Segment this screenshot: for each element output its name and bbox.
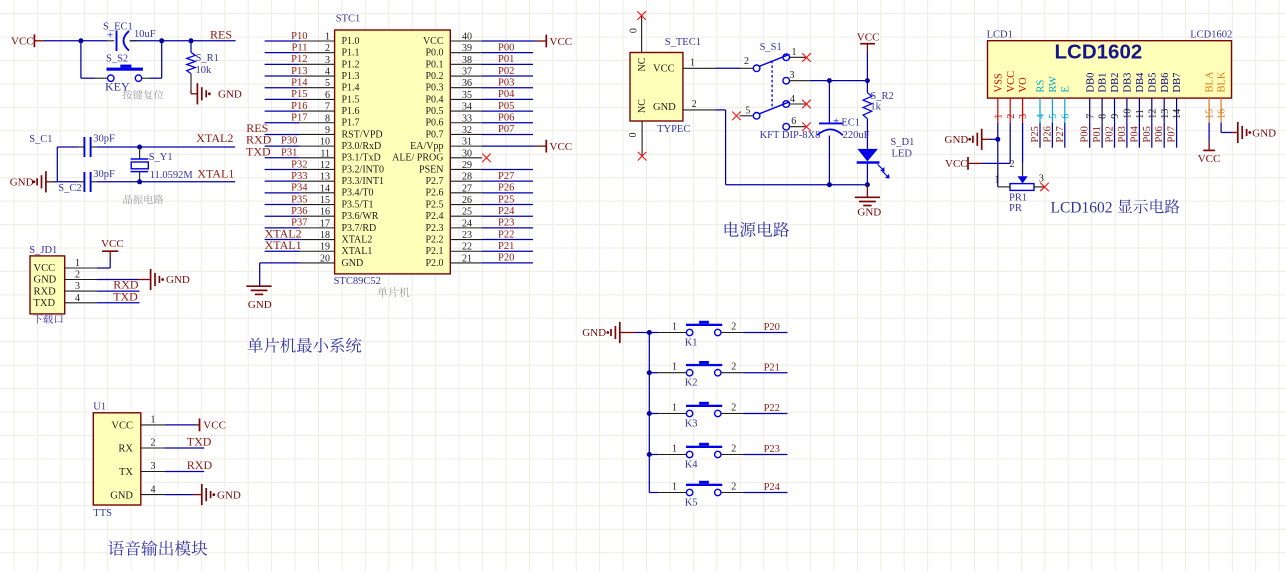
ground GND (crystal) <box>10 171 58 192</box>
svg-text:S_C1: S_C1 <box>29 134 52 145</box>
svg-text:1: 1 <box>993 114 1004 119</box>
svg-text:3: 3 <box>790 70 795 81</box>
svg-text:S_D1: S_D1 <box>890 137 914 148</box>
svg-text:P00: P00 <box>498 42 514 53</box>
svg-text:5: 5 <box>1048 114 1059 119</box>
svg-text:VCC: VCC <box>34 263 56 274</box>
svg-text:TXD: TXD <box>187 435 212 449</box>
pin 37 STC1 right <box>425 66 533 82</box>
svg-text:10: 10 <box>320 137 330 148</box>
svg-text:10: 10 <box>1123 109 1134 119</box>
svg-text:14: 14 <box>320 183 330 194</box>
svg-text:16: 16 <box>320 207 330 218</box>
svg-text:P3.3/INT1: P3.3/INT1 <box>342 176 385 187</box>
svg-text:P0.0: P0.0 <box>425 48 443 59</box>
switch S_S1 <box>744 42 797 130</box>
net label P37 <box>291 218 307 229</box>
pin 22 STC1 right <box>425 241 533 257</box>
pin 10 STC1 left <box>265 137 382 152</box>
svg-text:31: 31 <box>462 137 472 148</box>
svg-text:24: 24 <box>462 218 472 229</box>
svg-text:P23: P23 <box>498 218 514 229</box>
pin 12 STC1 left <box>265 160 384 175</box>
svg-text:9: 9 <box>1110 114 1121 119</box>
svg-text:1: 1 <box>672 444 677 455</box>
svg-text:14: 14 <box>1172 109 1183 119</box>
svg-text:10k: 10k <box>196 65 213 76</box>
pin 31 STC1 right <box>410 137 572 153</box>
svg-text:VCC: VCC <box>11 35 34 47</box>
text download caption <box>33 314 63 324</box>
svg-text:+: + <box>833 116 839 128</box>
svg-text:P26: P26 <box>1042 126 1053 142</box>
net labels RXD P30 (pin10) <box>246 133 297 147</box>
svg-text:20: 20 <box>320 253 330 264</box>
svg-text:P2.2: P2.2 <box>425 234 443 245</box>
pin 25 STC1 right <box>425 206 533 222</box>
svg-text:GND: GND <box>582 327 606 339</box>
svg-text:RW: RW <box>1048 76 1059 92</box>
pin 7 LCD1 (DB0) <box>1085 73 1096 123</box>
svg-text:P26: P26 <box>498 183 514 194</box>
text TTS section title <box>108 540 207 556</box>
svg-text:DB0: DB0 <box>1085 73 1096 93</box>
svg-text:PR1: PR1 <box>1009 192 1027 203</box>
svg-text:36: 36 <box>462 78 472 89</box>
power port VCC (power circuit) <box>857 31 880 80</box>
svg-text:0: 0 <box>629 28 640 33</box>
svg-text:19: 19 <box>320 242 330 253</box>
svg-text:LCD1: LCD1 <box>987 30 1013 41</box>
text reset caption <box>122 90 163 100</box>
pin 14 LCD1 (DB7) <box>1172 73 1183 123</box>
svg-text:GND: GND <box>166 274 190 286</box>
svg-text:VCC: VCC <box>550 141 573 153</box>
pin 4 STC1 left <box>265 66 360 82</box>
svg-text:GND: GND <box>218 88 242 100</box>
pin 7 STC1 left <box>265 101 360 117</box>
svg-text:1: 1 <box>690 57 695 68</box>
svg-text:33: 33 <box>462 113 472 124</box>
svg-text:DB4: DB4 <box>1135 72 1146 93</box>
pin 32 STC1 right <box>425 124 533 140</box>
svg-text:K5: K5 <box>685 497 698 508</box>
svg-text:8: 8 <box>325 113 330 124</box>
svg-text:LCD1602: LCD1602 <box>1055 41 1143 64</box>
svg-text:S_C2: S_C2 <box>58 183 81 194</box>
svg-text:LCD1602: LCD1602 <box>1051 199 1113 216</box>
svg-text:P31: P31 <box>281 147 297 158</box>
capacitor S_EC1 <box>103 22 156 52</box>
pin 16 STC1 left <box>265 207 379 222</box>
svg-text:1: 1 <box>672 403 677 414</box>
svg-text:1: 1 <box>672 482 677 493</box>
pin 29 STC1 right <box>419 160 533 175</box>
svg-text:STC1: STC1 <box>336 14 361 25</box>
svg-text:DB1: DB1 <box>1098 73 1109 93</box>
pin 21 STC1 right <box>425 253 533 269</box>
svg-text:P04: P04 <box>1129 125 1140 142</box>
svg-text:RXD: RXD <box>34 286 57 297</box>
pin 4 S_S1 nc <box>790 100 811 109</box>
svg-text:2: 2 <box>731 444 736 455</box>
svg-text:P20: P20 <box>764 322 780 333</box>
wire VCC to RES <box>44 40 236 42</box>
pin 0 bottom S_TEC1 <box>628 121 647 161</box>
net label XTAL1 (pin19) <box>265 238 302 252</box>
svg-text:LED: LED <box>892 149 913 160</box>
svg-text:1: 1 <box>792 47 797 58</box>
net label RES <box>210 27 232 41</box>
ground GND (LCD left) <box>945 129 998 150</box>
wire LCD pin 5 net P26 <box>1042 123 1053 148</box>
svg-text:XTAL1: XTAL1 <box>265 238 302 252</box>
svg-text:GND: GND <box>653 102 676 113</box>
pin 6 LCD1 (E) <box>1060 86 1071 123</box>
svg-text:P35: P35 <box>291 194 307 205</box>
connector S_JD1 <box>29 245 64 314</box>
svg-text:STC89C52: STC89C52 <box>334 276 381 287</box>
svg-text:KEY: KEY <box>105 80 130 94</box>
pin 4 S_JD1 net TXD <box>65 289 140 303</box>
svg-text:2: 2 <box>1010 159 1015 170</box>
svg-text:4: 4 <box>790 94 795 105</box>
svg-text:22: 22 <box>462 242 472 253</box>
svg-text:P2.6: P2.6 <box>425 188 443 199</box>
svg-text:VCC: VCC <box>945 158 968 170</box>
svg-text:34: 34 <box>462 102 472 113</box>
pin 39 STC1 right <box>425 42 533 58</box>
svg-text:RX: RX <box>118 444 133 455</box>
pin 9 LCD1 (DB2) <box>1110 73 1121 123</box>
crystal S_Y1 <box>131 147 194 182</box>
svg-text:P03: P03 <box>498 78 514 89</box>
svg-text:11: 11 <box>1135 109 1146 119</box>
svg-text:XTAL2: XTAL2 <box>196 131 233 145</box>
pin 15 LCD1 (BLA) <box>1205 71 1216 123</box>
svg-text:P24: P24 <box>498 206 515 217</box>
svg-text:VCC: VCC <box>423 36 444 47</box>
wire LCD pin 6 net P27 <box>1055 123 1066 148</box>
svg-text:26: 26 <box>462 195 472 206</box>
ground GND (S_R1) <box>191 83 242 104</box>
svg-text:11: 11 <box>320 148 330 159</box>
svg-text:P1.2: P1.2 <box>342 59 360 70</box>
pin 38 STC1 right <box>425 54 533 70</box>
svg-text:E: E <box>1060 86 1071 92</box>
svg-text:P14: P14 <box>291 78 308 89</box>
key K3 <box>649 402 787 430</box>
pin 30 STC1 right <box>392 148 491 163</box>
svg-text:30: 30 <box>462 148 472 159</box>
svg-text:P2.0: P2.0 <box>425 258 443 269</box>
svg-text:2: 2 <box>731 322 736 333</box>
svg-text:29: 29 <box>462 160 472 171</box>
svg-text:2: 2 <box>151 438 156 449</box>
svg-text:ALE/ PROG: ALE/ PROG <box>392 153 443 164</box>
svg-text:27: 27 <box>462 183 472 194</box>
svg-text:U1: U1 <box>93 401 106 412</box>
capacitor S_C2 <box>58 169 115 194</box>
svg-text:TYPEC: TYPEC <box>657 124 690 135</box>
connector S_TEC1 body <box>630 37 701 135</box>
ground GND (power circuit) <box>855 185 881 219</box>
svg-text:P07: P07 <box>498 124 514 135</box>
svg-text:P27: P27 <box>1055 126 1066 142</box>
svg-text:P3.2/INT0: P3.2/INT0 <box>342 164 385 175</box>
svg-text:P1.6: P1.6 <box>342 106 360 117</box>
pin 9 STC1 left <box>265 125 383 140</box>
svg-text:17: 17 <box>320 218 330 229</box>
svg-text:GND: GND <box>110 490 133 501</box>
svg-text:DB6: DB6 <box>1160 73 1171 93</box>
svg-text:VCC: VCC <box>653 64 675 75</box>
svg-text:21: 21 <box>462 253 472 264</box>
pin 28 STC1 right <box>425 171 533 187</box>
power port VCC (S_JD1) <box>101 238 124 268</box>
svg-text:3: 3 <box>1018 114 1029 119</box>
svg-text:0: 0 <box>628 133 639 138</box>
pin 14 STC1 left <box>265 183 374 198</box>
pin 17 STC1 left <box>265 218 377 233</box>
svg-text:GND: GND <box>1252 128 1276 140</box>
svg-text:P15: P15 <box>291 89 307 100</box>
pin 13 STC1 left <box>265 172 384 187</box>
svg-text:S_JD1: S_JD1 <box>29 245 57 256</box>
pin 35 STC1 right <box>425 89 533 105</box>
pin 0 top S_TEC1 <box>629 11 646 52</box>
wire LCD pin1 to pot <box>995 123 1000 187</box>
wire LCD pin3 to wiper <box>1022 123 1024 164</box>
ground GND (S_JD1) <box>138 269 190 290</box>
potentiometer PR1 <box>995 159 1049 214</box>
svg-text:GND: GND <box>857 206 881 218</box>
svg-text:2: 2 <box>692 99 697 110</box>
svg-text:P34: P34 <box>291 183 308 194</box>
pin 4 U1 wire <box>141 484 193 495</box>
text MCU section title <box>248 338 362 353</box>
svg-text:P01: P01 <box>498 54 514 65</box>
svg-text:EC1: EC1 <box>841 117 860 128</box>
svg-text:GND: GND <box>945 134 969 146</box>
svg-text:P20: P20 <box>498 253 514 264</box>
svg-text:P3.4/T0: P3.4/T0 <box>342 188 374 199</box>
net label P32 <box>291 159 307 170</box>
svg-text:1: 1 <box>151 415 156 426</box>
IC U1 body <box>93 401 141 519</box>
svg-text:12: 12 <box>320 160 330 171</box>
svg-text:P3.1/TxD: P3.1/TxD <box>342 153 381 164</box>
pin 16 LCD1 (BLK) <box>1217 71 1228 123</box>
svg-text:220uF: 220uF <box>843 130 870 141</box>
ground GND (STC1 pin20) <box>246 263 271 311</box>
wire crystal top branch <box>57 145 235 182</box>
svg-text:P30: P30 <box>281 136 297 147</box>
value label KFT DIP-8X8 <box>760 130 821 141</box>
svg-text:P21: P21 <box>498 241 514 252</box>
svg-text:P0.4: P0.4 <box>425 94 443 105</box>
wire LCD pin 4 net P25 <box>1030 123 1041 148</box>
pin 27 STC1 right <box>425 183 533 199</box>
svg-text:P24: P24 <box>764 482 781 493</box>
pin 36 STC1 right <box>425 78 533 94</box>
svg-text:6: 6 <box>325 90 330 101</box>
svg-text:TXD: TXD <box>34 298 56 309</box>
pin 3 S_S1 wire <box>790 78 870 83</box>
power port VCC (reset) <box>11 34 44 47</box>
svg-text:25: 25 <box>462 207 472 218</box>
pin 3 U1 net RXD <box>141 458 213 472</box>
svg-text:XTAL1: XTAL1 <box>342 246 373 257</box>
wire key bus <box>647 330 652 493</box>
svg-text:P1.4: P1.4 <box>342 83 360 94</box>
net label P33 <box>291 171 307 182</box>
svg-text:P2.7: P2.7 <box>425 176 443 187</box>
svg-text:S_R1: S_R1 <box>196 53 219 64</box>
svg-text:GND: GND <box>34 275 57 286</box>
svg-text:P3.5/T1: P3.5/T1 <box>342 199 374 210</box>
svg-text:P01: P01 <box>1092 126 1103 142</box>
svg-text:S_Y1: S_Y1 <box>149 152 173 163</box>
text crystal caption <box>123 195 163 204</box>
IC STC1 body <box>334 14 451 288</box>
wire crystal bottom branch <box>57 179 235 184</box>
key K4 <box>649 443 787 471</box>
svg-text:16: 16 <box>1217 109 1228 119</box>
svg-text:GND: GND <box>217 489 241 501</box>
svg-text:15: 15 <box>320 195 330 206</box>
svg-text:KFT DIP-8X8: KFT DIP-8X8 <box>760 130 821 141</box>
svg-text:32: 32 <box>462 125 472 136</box>
svg-text:XTAL2: XTAL2 <box>342 234 373 245</box>
svg-text:1: 1 <box>325 32 330 43</box>
svg-text:P0.5: P0.5 <box>425 106 443 117</box>
svg-text:P17: P17 <box>291 113 307 124</box>
resistor S_R2 <box>863 81 894 149</box>
svg-text:8: 8 <box>1098 114 1109 119</box>
svg-text:P22: P22 <box>498 229 514 240</box>
svg-text:P02: P02 <box>1105 126 1116 142</box>
svg-text:GND: GND <box>342 258 364 269</box>
pin 20 STC1 left <box>260 253 363 268</box>
svg-text:VSS: VSS <box>993 73 1004 92</box>
svg-text:VO: VO <box>1018 77 1029 93</box>
svg-text:P3.6/WR: P3.6/WR <box>342 211 379 222</box>
pin 2 S_JD1 <box>65 270 138 281</box>
svg-text:BLK: BLK <box>1217 71 1228 92</box>
svg-text:P22: P22 <box>764 403 780 414</box>
svg-text:S_TEC1: S_TEC1 <box>665 37 701 48</box>
svg-text:NC: NC <box>637 99 648 113</box>
pin 5 S_S1 nc <box>732 112 753 121</box>
svg-text:2: 2 <box>75 270 80 281</box>
text MCU part caption <box>377 287 409 297</box>
pin 24 STC1 right <box>425 218 533 234</box>
svg-text:3: 3 <box>325 55 330 66</box>
svg-text:12: 12 <box>1147 109 1158 119</box>
svg-text:S_S1: S_S1 <box>760 42 782 53</box>
svg-text:K1: K1 <box>685 337 698 348</box>
svg-text:6: 6 <box>1060 114 1071 119</box>
svg-text:VCC: VCC <box>203 420 226 432</box>
pin 3 S_JD1 net RXD <box>65 278 140 292</box>
svg-text:P16: P16 <box>291 101 307 112</box>
svg-text:P00: P00 <box>1080 126 1091 142</box>
svg-text:P02: P02 <box>498 66 514 77</box>
svg-text:XTAL1: XTAL1 <box>197 167 234 181</box>
pin 1 U1 wire <box>141 415 197 426</box>
svg-text:P07: P07 <box>1167 126 1178 142</box>
pin 34 STC1 right <box>425 101 533 117</box>
resistor S_R1 <box>187 41 219 90</box>
svg-text:P1.5: P1.5 <box>342 94 360 105</box>
svg-text:P3.7/RD: P3.7/RD <box>342 223 377 234</box>
svg-text:S_R2: S_R2 <box>870 91 893 102</box>
pin 1 LCD1 (VSS) <box>993 73 1004 123</box>
pin 12 LCD1 (DB5) <box>1147 73 1158 123</box>
svg-text:PR: PR <box>1009 203 1022 214</box>
svg-text:VCC: VCC <box>1198 153 1221 165</box>
ground GND (LCD right) <box>1238 122 1276 143</box>
svg-text:6: 6 <box>791 116 796 127</box>
text power section title <box>725 222 790 237</box>
pin 3 LCD1 (VO) <box>1018 77 1029 123</box>
svg-text:P06: P06 <box>1154 126 1165 142</box>
svg-text:TXD: TXD <box>246 144 271 158</box>
pin 18 STC1 left <box>265 230 373 245</box>
svg-text:VCC: VCC <box>1006 71 1017 93</box>
capacitor S_C1 <box>29 134 115 158</box>
svg-text:7: 7 <box>1085 114 1096 119</box>
svg-text:S_S2: S_S2 <box>106 53 128 64</box>
svg-text:18: 18 <box>320 230 330 241</box>
svg-text:DB5: DB5 <box>1147 73 1158 93</box>
svg-text:P06: P06 <box>498 113 514 124</box>
svg-text:LCD1602: LCD1602 <box>1190 30 1232 41</box>
net label P34 <box>291 183 308 194</box>
pin 1 S_JD1 <box>65 258 111 269</box>
svg-text:P2.4: P2.4 <box>425 211 443 222</box>
svg-text:2: 2 <box>731 403 736 414</box>
svg-text:TXD: TXD <box>113 289 138 303</box>
svg-text:39: 39 <box>462 43 472 54</box>
switch S_S2 (KEY) <box>81 41 162 94</box>
svg-text:37: 37 <box>462 67 472 78</box>
svg-text:1: 1 <box>75 258 80 269</box>
svg-text:P2.3: P2.3 <box>425 223 443 234</box>
pin 11 STC1 left <box>265 148 381 163</box>
power port VCC (LCD pin15) <box>1198 150 1221 164</box>
pin 19 STC1 left <box>265 242 373 257</box>
pin 2 LCD1 (VCC) <box>1006 71 1017 123</box>
svg-text:VCC: VCC <box>550 36 573 48</box>
svg-text:4: 4 <box>1036 114 1047 119</box>
wire LCD pin 14 net P07 <box>1167 123 1178 148</box>
pin 5 STC1 left <box>265 78 360 94</box>
net label XTAL2 (pin18) <box>265 226 302 240</box>
svg-text:9: 9 <box>325 125 330 136</box>
pin 23 STC1 right <box>425 229 533 245</box>
svg-text:4: 4 <box>75 293 80 304</box>
wire LCD pin 13 net P06 <box>1154 123 1165 148</box>
svg-text:P05: P05 <box>1142 126 1153 142</box>
pin 6 S_S1 nc <box>790 122 811 131</box>
net label XTAL2 <box>196 131 233 145</box>
power port VCC (LCD left) <box>945 157 982 170</box>
svg-text:VCC: VCC <box>857 31 880 43</box>
svg-text:3: 3 <box>151 461 156 472</box>
svg-text:P23: P23 <box>764 444 780 455</box>
